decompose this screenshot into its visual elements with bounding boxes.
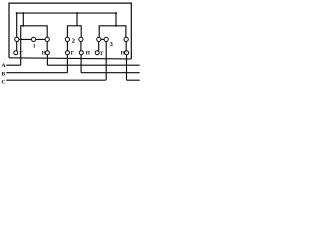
junction dot bus end bbox=[115, 12, 117, 14]
wire N1 drop to A load bbox=[46, 55, 48, 66]
junction dot bus drop 1 bbox=[22, 12, 24, 14]
bridge element 2 bbox=[67, 26, 81, 42]
svg-text:2: 2 bbox=[72, 37, 75, 44]
wire N3 drop to C load bbox=[126, 55, 128, 81]
wire G1 lower bbox=[16, 42, 18, 51]
junction dot bus start bbox=[16, 12, 18, 14]
svg-text:3: 3 bbox=[110, 41, 113, 48]
link line element 1 bbox=[17, 38, 48, 40]
junction dot bridge 3 bbox=[115, 25, 117, 27]
terminal circle G1 bbox=[14, 51, 18, 55]
bridge element 1 bbox=[21, 26, 48, 65]
wire N2 lower bbox=[80, 42, 82, 51]
drop from bus to bridge 2 bbox=[76, 13, 78, 26]
bridge element 3 bbox=[99, 26, 126, 42]
junction dot bus drop 2 bbox=[76, 12, 78, 14]
svg-text:Г: Г bbox=[71, 51, 75, 57]
voltage circle G2 bbox=[65, 37, 69, 41]
wire C riser from circle B3 bbox=[105, 42, 107, 81]
top bus bbox=[17, 13, 116, 37]
wire N2 drop to B load bbox=[80, 55, 82, 73]
terminal circle N1 bbox=[45, 51, 49, 55]
voltage circle N3 bbox=[124, 37, 128, 41]
terminal circle G3 bbox=[95, 51, 99, 55]
wire N3 lower bbox=[125, 42, 127, 51]
wire G2 lower bbox=[66, 42, 68, 51]
terminal circle N2 bbox=[79, 51, 83, 55]
terminal circle N3 bbox=[125, 51, 129, 55]
drop from bus to bridge 1 bbox=[22, 13, 24, 26]
junction dot bridge 1 bbox=[22, 25, 24, 27]
svg-text:Н: Н bbox=[86, 51, 91, 57]
wire N1 lower bbox=[46, 42, 48, 51]
phase B line out bbox=[81, 72, 140, 74]
svg-text:Г: Г bbox=[100, 51, 104, 57]
phase A line in bbox=[6, 64, 20, 66]
svg-text:Г: Г bbox=[19, 51, 23, 57]
voltage circle A1 bbox=[15, 37, 19, 41]
voltage circle A3 bbox=[97, 37, 101, 41]
phase C line out bbox=[127, 79, 140, 81]
meter case frame bbox=[9, 3, 131, 59]
voltage circle B3 bbox=[104, 37, 108, 41]
voltage circle N1 bbox=[45, 37, 49, 41]
wire G2 drop to B in bbox=[66, 55, 68, 73]
terminal circle G2 bbox=[66, 51, 70, 55]
svg-text:С: С bbox=[2, 79, 6, 85]
drop from bus end to bridge 3 bbox=[115, 13, 117, 26]
phase A line out bbox=[47, 64, 139, 66]
svg-text:А: А bbox=[2, 63, 6, 69]
wire G3 lower bbox=[98, 42, 100, 51]
voltage circle B1 bbox=[31, 37, 35, 41]
link jumper element 3 bbox=[99, 38, 106, 40]
voltage circle N2 bbox=[79, 37, 83, 41]
phase B line in bbox=[6, 72, 67, 74]
phase C line in bbox=[6, 79, 105, 81]
svg-text:В: В bbox=[2, 72, 6, 78]
svg-text:1: 1 bbox=[33, 44, 36, 50]
